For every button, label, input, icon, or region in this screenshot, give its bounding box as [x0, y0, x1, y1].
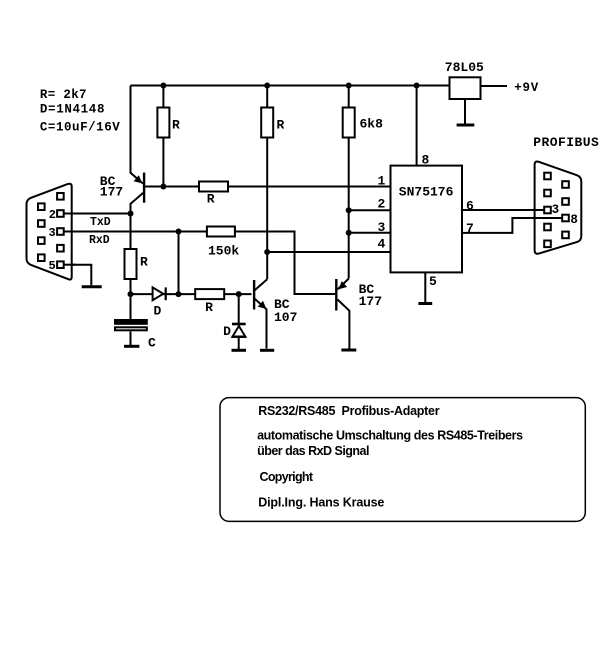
svg-text:Copyright: Copyright	[260, 470, 314, 484]
svg-text:R: R	[140, 255, 148, 270]
svg-text:107: 107	[274, 310, 297, 325]
svg-text:177: 177	[359, 294, 382, 309]
svg-text:6k8: 6k8	[360, 117, 384, 132]
svg-text:RxD: RxD	[89, 234, 110, 247]
svg-text:D=1N4148: D=1N4148	[40, 103, 105, 117]
svg-text:R: R	[172, 118, 180, 133]
svg-text:177: 177	[100, 185, 123, 200]
svg-text:RS232/RS485 Profibus-Adapter: RS232/RS485 Profibus-Adapter	[258, 404, 440, 418]
svg-text:150k: 150k	[208, 244, 239, 259]
svg-text:C: C	[148, 335, 156, 350]
svg-text:3: 3	[552, 203, 560, 217]
svg-text:6: 6	[466, 199, 474, 214]
svg-text:7: 7	[466, 221, 474, 236]
svg-text:1: 1	[378, 174, 386, 189]
svg-text:5: 5	[429, 274, 437, 289]
svg-text:TxD: TxD	[90, 216, 111, 229]
svg-text:2: 2	[49, 208, 56, 222]
svg-text:3: 3	[49, 226, 56, 240]
svg-text:Dipl.Ing. Hans Krause: Dipl.Ing. Hans Krause	[258, 495, 384, 509]
svg-text:78L05: 78L05	[445, 60, 484, 75]
svg-text:C=10uF/16V: C=10uF/16V	[40, 121, 120, 135]
svg-text:2: 2	[378, 197, 386, 212]
svg-text:4: 4	[378, 237, 386, 252]
svg-text:automatische Umschaltung des R: automatische Umschaltung des RS485-Treib…	[257, 428, 523, 442]
svg-text:8: 8	[422, 152, 430, 167]
svg-text:R: R	[205, 300, 213, 315]
svg-text:D: D	[154, 304, 162, 319]
svg-text:SN75176: SN75176	[399, 185, 454, 200]
svg-text:PROFIBUS: PROFIBUS	[533, 135, 599, 150]
svg-text:über das RxD Signal: über das RxD Signal	[257, 444, 369, 458]
svg-text:8: 8	[570, 213, 578, 227]
svg-text:D: D	[223, 324, 231, 339]
svg-text:+9V: +9V	[514, 81, 539, 95]
svg-text:R: R	[277, 118, 285, 133]
svg-text:3: 3	[378, 220, 386, 235]
svg-text:R: R	[207, 192, 215, 207]
svg-text:R= 2k7: R= 2k7	[40, 88, 87, 102]
svg-text:5: 5	[49, 259, 56, 273]
